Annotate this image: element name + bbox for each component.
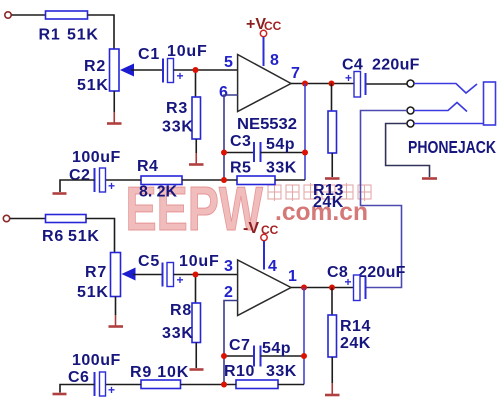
terminal +Vcc: [260, 30, 266, 36]
wire C4 to jack tip: [367, 83, 408, 85]
svg-text:51K: 51K: [67, 27, 99, 44]
feedback vertical wire 2 (output to R10/C7): [303, 288, 305, 385]
wire R8 to ground: [195, 343, 197, 369]
svg-text:100uF: 100uF: [72, 149, 121, 166]
wire node to R8: [195, 275, 197, 304]
svg-text:+: +: [345, 275, 352, 289]
capacitor C8: [354, 275, 361, 301]
svg-text:7: 7: [291, 65, 300, 82]
ground below R7: [115, 315, 117, 326]
svg-text:R5: R5: [230, 160, 251, 177]
wire C3 left: [224, 152, 254, 154]
watermark chinese characters row: [268, 183, 371, 201]
node at C5/R8: [193, 272, 199, 278]
svg-text:R6: R6: [42, 228, 64, 245]
svg-text:R3: R3: [166, 100, 188, 117]
svg-text:PHONEJACK: PHONEJACK: [408, 137, 496, 157]
feedback vertical wire (output to R5/C3): [304, 84, 306, 181]
svg-text:33K: 33K: [162, 119, 194, 136]
node output 1: [302, 81, 308, 87]
svg-text:100uF: 100uF: [72, 352, 121, 369]
svg-text:R14: R14: [340, 318, 371, 335]
node output2 2: [329, 285, 335, 291]
wire output node to R13: [331, 84, 333, 112]
svg-text:51K: 51K: [68, 228, 100, 245]
capacitor C6: [94, 372, 96, 396]
svg-text:+: +: [345, 71, 352, 85]
resistor R8: [192, 303, 201, 343]
wire C7 right: [261, 355, 305, 357]
wire R13 to ground: [331, 153, 333, 177]
svg-text:R1: R1: [39, 27, 61, 44]
resistor R14: [328, 315, 337, 357]
capacitor C1: [162, 59, 164, 83]
svg-text:51K: 51K: [77, 284, 109, 301]
resistor R9: [141, 380, 181, 389]
svg-text:24K: 24K: [340, 335, 371, 352]
wire R7 bottom to ground: [115, 297, 117, 316]
wire C5 to op-amp pin3: [174, 274, 238, 276]
wire C7 left: [224, 355, 254, 357]
wire +Vcc to pin 8: [263, 37, 265, 66]
node R4/R5: [221, 177, 227, 183]
wire output node to R14: [331, 288, 333, 316]
svg-text:-V: -V: [243, 220, 259, 237]
svg-text:C7: C7: [229, 337, 250, 354]
svg-text:CC: CC: [264, 19, 282, 33]
svg-text:+: +: [108, 383, 115, 397]
capacitor C3: [253, 142, 255, 162]
svg-text:C3: C3: [230, 133, 251, 150]
svg-text:R2: R2: [84, 58, 106, 75]
wire pin6 to feedback rail: [224, 95, 238, 180]
svg-text:R9 10K: R9 10K: [130, 364, 189, 381]
svg-text:33K: 33K: [266, 363, 297, 380]
wire C2 to ground: [60, 180, 95, 192]
R2 wiper arrow: [120, 64, 134, 77]
wire R2 bottom to ground: [113, 91, 115, 112]
wire C3 right: [261, 152, 306, 154]
svg-text:NE5532: NE5532: [237, 116, 297, 133]
resistor R10: [236, 380, 278, 389]
resistor R13: [328, 111, 337, 153]
svg-text:10uF: 10uF: [179, 253, 220, 270]
svg-text:+: +: [177, 69, 184, 83]
wire C1 to op-amp pin5: [174, 69, 238, 71]
wire C2 to R4: [106, 179, 141, 181]
wire op-amp output: [291, 83, 354, 85]
wire R4 to node: [182, 179, 237, 181]
svg-text:1: 1: [288, 268, 297, 285]
node C3 right: [302, 150, 308, 156]
wire node to R3: [195, 70, 197, 97]
jack tip contact: [414, 84, 477, 94]
svg-text:8. 2K: 8. 2K: [139, 184, 177, 201]
ground below C6: [53, 393, 67, 396]
ground below R2: [113, 112, 115, 123]
svg-text:4: 4: [268, 258, 277, 275]
wire R6 to R7 top: [86, 219, 115, 253]
jack body rectangle: [484, 82, 496, 125]
ground below R8: [190, 368, 204, 371]
capacitor C5: [162, 263, 164, 287]
svg-text:C2: C2: [69, 167, 90, 184]
node R9/R10: [221, 382, 227, 388]
wire pin2 to feedback rail: [224, 301, 238, 385]
potentiometer R7: [111, 253, 121, 297]
svg-text:R4: R4: [137, 158, 158, 175]
svg-text:R7: R7: [85, 264, 107, 281]
jack sleeve terminal: [407, 120, 414, 127]
wire R9 to node: [181, 384, 237, 386]
capacitor C4: [354, 72, 361, 98]
ground below C2: [53, 192, 67, 195]
node C3 left: [221, 150, 227, 156]
node output2 1: [301, 285, 307, 291]
node at C1/R3: [193, 67, 199, 73]
resistor R5: [237, 176, 275, 185]
potentiometer R2: [110, 49, 120, 91]
svg-text:R10: R10: [224, 363, 255, 380]
svg-text:R8: R8: [170, 302, 192, 319]
svg-text:33K: 33K: [162, 325, 194, 342]
resistor R1: [46, 11, 88, 19]
wire R1 to R2 top: [88, 15, 115, 49]
wire R14 to ground: [331, 357, 333, 383]
wire input to R1: [12, 14, 46, 16]
wire op-amp 2 output: [291, 287, 354, 289]
wire ring to bottom channel: [361, 111, 408, 288]
svg-text:2: 2: [224, 284, 233, 301]
wire -Vcc to pin 4: [263, 241, 265, 270]
svg-text:3: 3: [224, 258, 233, 275]
wire R7 wiper to C5: [133, 274, 162, 276]
op-amp U1B triangle: [238, 260, 291, 316]
svg-text:51K: 51K: [77, 77, 109, 94]
wire R10 to feedback vertical 2: [278, 384, 304, 386]
resistor R3: [192, 97, 201, 139]
resistor R4: [141, 176, 182, 185]
wire R3 to ground: [195, 139, 197, 153]
jack ring terminal: [407, 107, 414, 114]
resistor R6: [46, 215, 87, 223]
ground below jack sleeve: [422, 177, 437, 180]
svg-text:5: 5: [224, 54, 233, 71]
wire C6 to R9: [106, 384, 141, 386]
svg-text:10uF: 10uF: [167, 43, 208, 60]
ground below R3: [195, 153, 197, 164]
ground below R13: [325, 177, 340, 180]
R7 wiper arrow: [122, 268, 136, 281]
node output 2: [329, 81, 335, 87]
input terminal J-left-bottom: [3, 215, 9, 221]
jack sleeve line: [414, 123, 484, 125]
svg-text:54p: 54p: [266, 136, 295, 153]
wire input to R6: [10, 218, 46, 220]
svg-text:54p: 54p: [262, 340, 291, 357]
node C7 right: [301, 353, 307, 359]
svg-text:C5: C5: [138, 253, 160, 270]
svg-text:C1: C1: [138, 46, 160, 63]
input terminal J-left-top: [5, 12, 11, 18]
jack ring contact: [414, 103, 467, 112]
svg-text:220uF: 220uF: [372, 57, 420, 74]
svg-text:8: 8: [270, 52, 279, 69]
svg-text:C6: C6: [68, 369, 89, 386]
jack tip terminal: [407, 80, 414, 87]
terminal -Vcc: [261, 234, 267, 240]
wire R2 wiper to C1: [131, 69, 162, 71]
wire C6 to ground: [60, 385, 95, 393]
svg-text:33K: 33K: [266, 160, 297, 177]
svg-text:24K: 24K: [313, 194, 344, 211]
capacitor C7: [253, 346, 255, 367]
svg-text:+: +: [108, 179, 115, 193]
wire sleeve to ground: [386, 124, 430, 178]
capacitor C2: [94, 168, 96, 192]
ground below R14: [331, 383, 333, 394]
node C7 left: [221, 353, 227, 359]
op-amp U1A triangle: [238, 55, 291, 112]
wire R5 to feedback vertical: [275, 179, 305, 181]
